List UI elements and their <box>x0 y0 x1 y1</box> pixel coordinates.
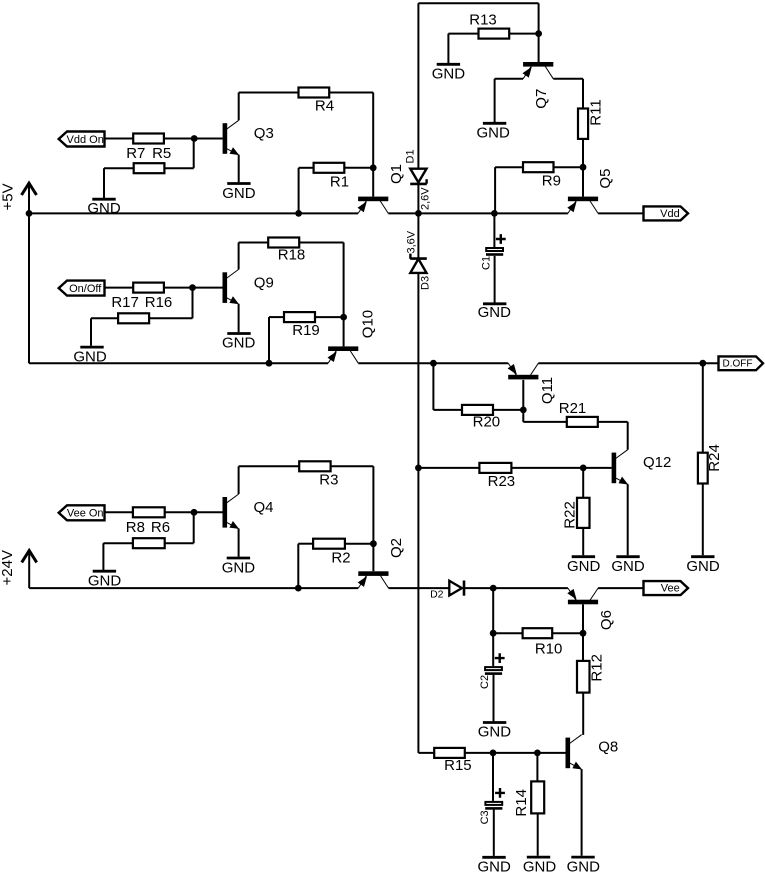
svg-text:C3: C3 <box>479 810 491 824</box>
svg-text:Vdd On: Vdd On <box>67 134 104 146</box>
svg-text:R18: R18 <box>278 247 306 264</box>
svg-text:R12: R12 <box>589 654 606 682</box>
svg-text:On/Off: On/Off <box>69 283 102 295</box>
svg-text:GND: GND <box>477 125 511 142</box>
svg-text:Q2: Q2 <box>388 538 405 558</box>
svg-text:3,6V: 3,6V <box>406 230 418 253</box>
svg-text:R19: R19 <box>292 322 320 339</box>
svg-text:D2: D2 <box>430 589 444 601</box>
svg-text:R10: R10 <box>535 640 563 657</box>
svg-text:C2: C2 <box>479 675 491 689</box>
svg-text:GND: GND <box>222 560 256 577</box>
svg-text:GND: GND <box>222 334 256 351</box>
svg-text:Vee On: Vee On <box>67 508 104 520</box>
svg-text:R17: R17 <box>111 294 139 311</box>
svg-text:Q3: Q3 <box>254 125 274 142</box>
svg-text:D1: D1 <box>404 149 416 163</box>
svg-text:Q6: Q6 <box>598 610 615 630</box>
svg-text:GND: GND <box>432 65 466 82</box>
svg-text:C1: C1 <box>480 256 492 270</box>
svg-text:GND: GND <box>87 200 121 217</box>
svg-text:GND: GND <box>686 558 720 575</box>
svg-text:GND: GND <box>523 858 557 875</box>
svg-text:R1: R1 <box>330 173 349 190</box>
svg-text:R24: R24 <box>706 444 723 472</box>
svg-text:Q9: Q9 <box>254 275 274 292</box>
svg-text:R21: R21 <box>559 400 587 417</box>
svg-text:GND: GND <box>88 573 122 590</box>
svg-text:+5V: +5V <box>0 183 17 210</box>
svg-text:GND: GND <box>611 558 645 575</box>
svg-text:R7: R7 <box>126 145 145 162</box>
svg-text:Q8: Q8 <box>598 738 618 755</box>
svg-text:GND: GND <box>478 724 512 741</box>
svg-text:R11: R11 <box>588 99 605 125</box>
svg-text:Q10: Q10 <box>360 310 377 338</box>
svg-text:Vee: Vee <box>661 583 680 595</box>
svg-text:+24V: +24V <box>0 550 16 585</box>
svg-text:R9: R9 <box>542 172 561 189</box>
svg-text:R2: R2 <box>331 549 350 566</box>
svg-text:GND: GND <box>222 185 256 202</box>
svg-text:Q7: Q7 <box>533 89 550 109</box>
svg-text:2,6V: 2,6V <box>420 187 432 210</box>
svg-text:D.OFF: D.OFF <box>723 359 753 370</box>
svg-text:GND: GND <box>567 858 601 875</box>
svg-text:Q1: Q1 <box>388 164 405 184</box>
svg-text:R4: R4 <box>315 97 334 114</box>
svg-text:R13: R13 <box>469 12 497 29</box>
svg-text:Q5: Q5 <box>597 169 614 189</box>
svg-text:Q4: Q4 <box>254 499 274 516</box>
svg-text:R16: R16 <box>145 294 173 311</box>
svg-text:R14: R14 <box>513 789 530 817</box>
svg-text:R5: R5 <box>152 145 171 162</box>
svg-text:Q12: Q12 <box>643 454 671 471</box>
svg-text:Q11: Q11 <box>539 377 556 404</box>
svg-text:R23: R23 <box>488 473 516 490</box>
svg-text:R3: R3 <box>319 471 338 488</box>
svg-text:R8: R8 <box>126 519 145 536</box>
svg-text:R15: R15 <box>444 757 472 774</box>
svg-text:D3: D3 <box>420 276 432 290</box>
svg-text:GND: GND <box>567 558 601 575</box>
svg-text:Vdd: Vdd <box>660 208 680 220</box>
svg-text:GND: GND <box>478 304 512 321</box>
svg-text:R6: R6 <box>151 519 170 536</box>
svg-text:R22: R22 <box>561 501 578 529</box>
svg-text:GND: GND <box>478 858 512 875</box>
svg-text:R20: R20 <box>473 413 501 430</box>
